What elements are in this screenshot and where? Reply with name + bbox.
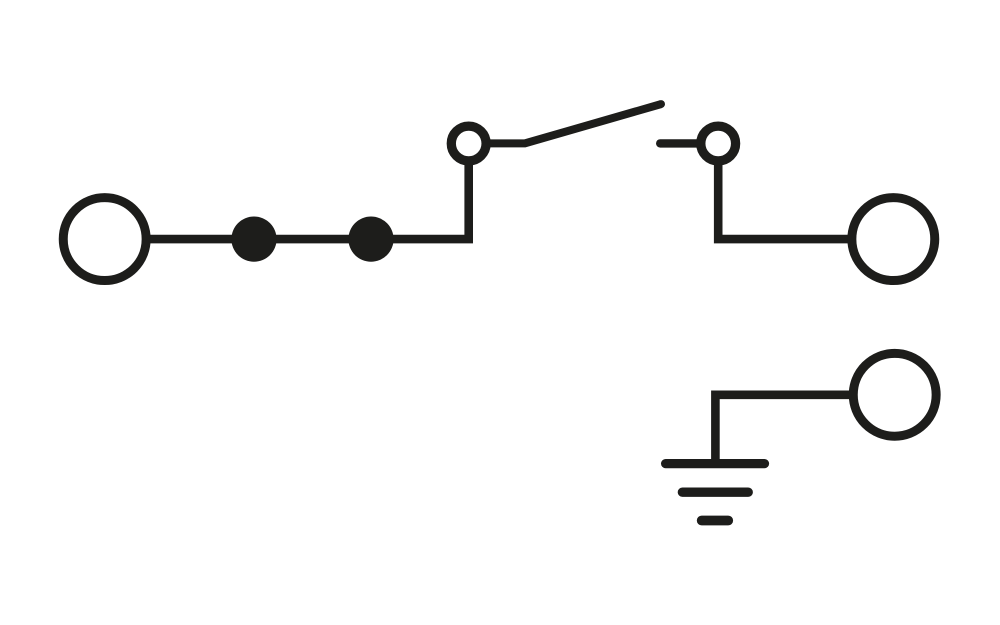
wire: left terminal to riser up to switch contact A (148, 150, 469, 239)
switch contact B (open circle) (701, 126, 736, 161)
wire: stub into contact B (660, 139, 699, 147)
wire: lower-right terminal to ground riser (715, 395, 849, 464)
node: test point 1 (231, 217, 276, 262)
terminal: upper-right screw clamp (852, 198, 935, 281)
wire: riser from contact B down and right to upper-right terminal (718, 150, 849, 239)
ground (666, 464, 765, 521)
switch blade (open knife switch) (486, 104, 661, 143)
terminal: left screw clamp (63, 198, 146, 281)
terminal: lower-right screw clamp (853, 353, 936, 436)
blade tip round cap (657, 100, 665, 108)
switch contact A (open circle) (451, 126, 486, 161)
node: test point 2 (348, 217, 393, 262)
